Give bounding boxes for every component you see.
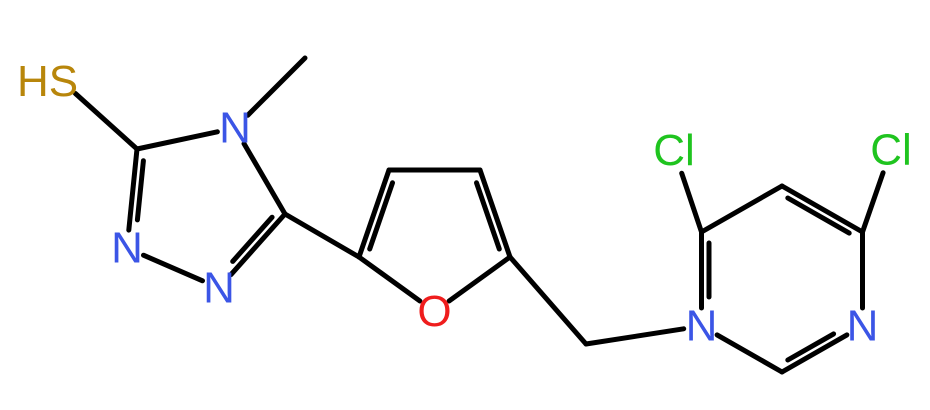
bond PC4-ClR — [863, 173, 884, 232]
bond C5-F2 — [285, 214, 359, 257]
bond C3-N4 — [137, 132, 217, 149]
bond PC6-ClL — [682, 173, 702, 232]
bond FO-F2 — [359, 257, 420, 301]
bond PC4-PN3 — [860, 232, 865, 308]
bond PC5=PC4 inner — [788, 198, 849, 233]
svg-text:Cl: Cl — [653, 126, 695, 175]
bond F2=F3 inner — [370, 183, 393, 249]
bond N4-C5 — [244, 144, 285, 214]
bond N2-N1 — [144, 255, 203, 281]
svg-text:N: N — [111, 224, 143, 273]
bond PC5=PC4 main — [782, 186, 863, 232]
bond F4=F5 main — [480, 170, 510, 257]
bond F3-F4 — [389, 168, 480, 173]
svg-text:HS: HS — [17, 57, 78, 106]
svg-text:N: N — [847, 302, 879, 351]
svg-text:Cl: Cl — [870, 126, 912, 175]
bond PN1=PC6 main — [699, 232, 704, 308]
bond PN1=PC6 inner — [707, 243, 712, 297]
svg-text:N: N — [686, 302, 718, 351]
bond N1=C5 inner — [233, 217, 272, 261]
bond N4-CH3 — [248, 58, 305, 115]
bond PC6-PC5 — [702, 186, 783, 232]
bond C3=N2 inner — [137, 161, 143, 220]
bond PN3=PC2 main — [782, 335, 847, 372]
bond CH2-PN1 — [586, 329, 684, 344]
bond N1=C5 main — [231, 214, 285, 275]
bond F5-CH2 — [510, 257, 586, 344]
bond F2=F3 main — [359, 170, 389, 257]
bond S-C3 — [75, 94, 137, 150]
svg-text:O: O — [417, 287, 451, 336]
bond C3=N2 main — [129, 149, 137, 230]
bond PN3=PC2 inner — [788, 334, 834, 360]
bond PC2-PN1 — [717, 335, 782, 372]
bond F4=F5 inner — [477, 183, 500, 249]
bond F5-FO — [449, 257, 510, 301]
svg-text:N: N — [203, 264, 235, 313]
svg-text:N: N — [219, 104, 251, 153]
